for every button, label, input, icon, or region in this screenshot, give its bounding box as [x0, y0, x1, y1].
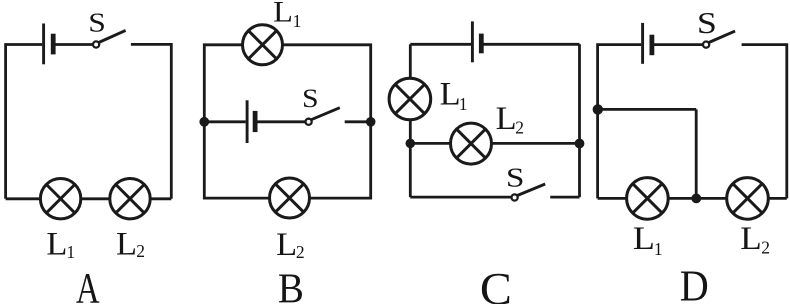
switch S pivot circle (C) [511, 194, 517, 200]
svg-text:L: L [440, 77, 461, 113]
junction dot B left [199, 117, 209, 127]
svg-text:1: 1 [293, 11, 302, 31]
svg-text:1: 1 [66, 242, 75, 262]
svg-text:S: S [697, 6, 717, 40]
battery A long plate [42, 24, 45, 65]
wire A left edge and top-left segment [6, 45, 43, 199]
svg-text:L: L [496, 101, 517, 137]
battery D short thick plate [650, 35, 655, 56]
lamp L1 (A) cross [46, 185, 74, 213]
wire D bottom [598, 197, 787, 200]
switch S pivot circle (A) [93, 41, 99, 47]
switch S pivot circle (D) [703, 42, 709, 48]
battery A short thick plate [51, 34, 56, 55]
wire A bottom [6, 197, 172, 200]
switch S blade (C) [517, 184, 545, 196]
lamp L2 (B) cross [275, 184, 303, 212]
svg-text:2: 2 [515, 118, 524, 138]
wire B switch-to-right-dot [345, 120, 371, 123]
svg-text:A: A [76, 266, 100, 304]
battery C long plate [471, 21, 474, 62]
battery B long plate [246, 100, 249, 143]
svg-text:L: L [273, 0, 293, 28]
lamp L2 (D) circle [727, 178, 769, 220]
battery D long plate [641, 23, 644, 64]
wire C left edge [409, 44, 412, 197]
lamp L2 (B) circle [270, 178, 310, 218]
wire D battery-to-switch [654, 43, 703, 46]
wire C top side [410, 43, 579, 46]
battery C short thick plate [479, 34, 484, 54]
lamp L1 (C) cross [395, 84, 424, 113]
wire D switch-to-corner and right edge [742, 45, 787, 199]
wire D left edge and top-left segment [598, 45, 642, 199]
junction dot B right [366, 117, 376, 127]
lamp L1 (C) circle [389, 78, 431, 120]
svg-text:2: 2 [136, 241, 145, 261]
svg-text:2: 2 [761, 238, 770, 258]
lamp L2 (A) cross [116, 185, 144, 213]
svg-text:S: S [506, 162, 525, 193]
junction dot D left edge [593, 104, 603, 114]
svg-text:1: 1 [459, 94, 468, 114]
svg-text:S: S [88, 6, 106, 37]
lamp L2 (C) circle [451, 123, 492, 164]
wire A battery-to-switch [55, 43, 93, 46]
svg-text:B: B [278, 267, 304, 304]
svg-text:L: L [116, 226, 137, 262]
wire B battery-to-switch [257, 120, 305, 123]
svg-text:D: D [680, 262, 709, 304]
junction dot D bottom [691, 194, 701, 204]
svg-text:L: L [740, 221, 762, 257]
switch S blade (B) [311, 108, 340, 120]
lamp L2 (A) circle [110, 179, 150, 219]
lamp L1 (D) cross [633, 184, 662, 213]
switch S blade (A) [99, 30, 126, 42]
wire D inner branch vertical [695, 109, 698, 198]
lamp L2 (C) cross [457, 129, 486, 158]
wire C middle branch [410, 142, 579, 145]
junction dot C right [575, 139, 585, 149]
lamp L2 (D) cross [733, 184, 762, 213]
wire B outer rectangle [204, 45, 370, 198]
svg-text:2: 2 [296, 242, 305, 262]
junction dot C left [406, 139, 416, 149]
lamp L1 (B) circle [243, 25, 283, 65]
lamp L1 (A) circle [40, 179, 80, 219]
wire C bottom-left segment [410, 196, 511, 199]
svg-text:C: C [480, 264, 512, 304]
lamp L1 (B) cross [248, 31, 276, 59]
switch S blade (D) [709, 31, 735, 42]
svg-text:L: L [276, 227, 297, 263]
battery B short thick plate [253, 111, 258, 132]
svg-text:L: L [633, 221, 655, 257]
wire D inner branch horizontal [598, 108, 697, 111]
wire C right edge [578, 44, 581, 197]
lamp L1 (D) circle [627, 178, 669, 220]
svg-text:S: S [302, 84, 319, 113]
wire A switch-to-corner and right edge [131, 44, 171, 198]
wire C bottom-right segment [550, 196, 579, 199]
svg-text:L: L [46, 227, 67, 263]
switch S pivot circle (B) [306, 119, 312, 125]
wire B middle branch left segment [204, 120, 245, 123]
svg-text:1: 1 [654, 239, 663, 259]
